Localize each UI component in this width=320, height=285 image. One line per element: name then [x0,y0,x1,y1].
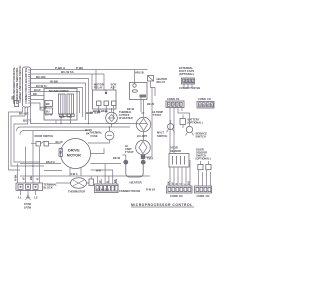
wire battery drop [182,115,184,129]
label W-BK mid [40,105,93,115]
svg-text:(OPTIONAL): (OPTIONAL) [179,72,194,76]
svg-text:W-BK: W-BK [40,105,47,109]
wire top bus P-BK [31,66,148,70]
transformer T1 [44,89,77,121]
label thermal cutoff [119,107,135,120]
svg-text:BR: BR [46,102,50,106]
svg-text:W HEATER: W HEATER [119,116,133,120]
svg-text:6 5 4 3 2 1: 6 5 4 3 2 1 [97,188,110,192]
svg-text:R: R [105,181,109,183]
svg-text:CONN. FE: CONN. FE [167,97,180,101]
svg-text:CONN. CO: CONN. CO [198,97,211,101]
svg-text:P-BK A: P-BK A [55,66,66,70]
svg-text:BK-W: BK-W [113,156,121,160]
svg-text:P-BK: P-BK [76,66,84,70]
title microprocessor control [131,203,194,207]
svg-text:W-R: W-R [96,169,101,173]
svg-text:TRANSFORMER: TRANSFORMER [49,89,69,93]
thermostat cycling [106,108,118,127]
svg-text:W: W [22,177,26,180]
fuse BR on board lead [11,96,19,107]
svg-text:BK: BK [113,179,117,183]
svg-text:BK-W: BK-W [127,107,135,111]
heater element coils [113,155,146,185]
fuse F1 [45,101,53,107]
wire stair y99 [31,99,44,101]
svg-text:R-W 5A: R-W 5A [146,188,155,192]
svg-text:R: R [36,178,40,180]
wire W-BK [31,79,86,120]
svg-text:CONNECTOR SB: CONNECTOR SB [179,86,200,90]
wire to transformer [31,84,83,117]
svg-text:DOOR SWITCH: DOOR SWITCH [35,134,54,138]
wire stair y91 [31,88,80,113]
wire optional to conn oc [199,170,211,186]
connector CO [197,97,214,108]
svg-text:SENSOR: SENSOR [170,149,181,153]
svg-text:1P3W: 1P3W [24,206,32,210]
label hi temp [90,111,101,115]
hi-limit thermostat A [136,113,151,140]
svg-text:BU: BU [46,109,50,113]
svg-text:W-BK: W-BK [85,128,92,132]
battery optional [180,118,203,125]
svg-text:R-W A: R-W A [70,172,78,176]
drive motor M1 [59,139,91,169]
label BK-W right [147,102,155,106]
svg-text:CONNECTOR DB: CONNECTOR DB [119,189,140,193]
connector DC [167,186,193,198]
svg-text:SWITCH: SWITCH [196,135,206,139]
svg-text:BK: BK [101,109,105,113]
svg-text:CONN. OC: CONN. OC [197,194,210,198]
heater relay K2 [148,76,168,88]
svg-text:T'STAT: T'STAT [153,113,162,117]
svg-text:Y: Y [183,183,187,185]
connector FE [166,97,184,108]
wire R-W motor bottom [20,169,150,177]
svg-text:DRIVE: DRIVE [68,149,80,153]
wire stair y103 [31,103,44,110]
svg-text:HEATER: HEATER [130,181,143,185]
svg-text:BU-BK: BU-BK [36,75,46,79]
wire strip pin stubs [98,164,118,185]
mult switch [157,120,175,138]
label HRLYB [135,71,144,75]
wire transformer secondary drops [56,114,74,124]
svg-text:L2: L2 [34,196,38,200]
optional switch contacts [198,161,211,170]
svg-text:BU-R: BU-R [34,88,41,92]
svg-text:THERMISTOR: THERMISTOR [68,190,85,194]
svg-text:BK-W: BK-W [147,102,155,106]
svg-text:BK: BK [86,132,90,136]
hi-limit thermostat B [125,140,150,155]
fuse F2 [45,108,53,114]
belt switch [89,176,94,186]
thermal fuse [88,127,114,143]
connector MB strip [95,184,141,193]
door sensor switch optional note [196,148,211,161]
wire bus mid3 [20,131,88,135]
svg-text:HI LIMIT: HI LIMIT [137,134,148,138]
control board vertical legend text [12,66,22,104]
wire left loop inner [14,107,40,162]
svg-text:ASY: ASY [111,85,117,89]
wire left loop outer [9,107,23,170]
svg-text:BR: BR [11,96,15,100]
external duct caps note [179,66,194,76]
wire BU-BK [31,75,89,124]
svg-text:BR: BR [33,92,37,96]
svg-text:BK: BK [167,181,171,185]
junction dots [32,112,144,167]
wire bus mid1 [31,104,148,124]
svg-text:MICROPROCESSOR CONTROL: MICROPROCESSOR CONTROL [131,203,193,207]
svg-text:BLOCK: BLOCK [44,186,53,190]
connector SB [179,78,200,90]
service switch [186,122,208,139]
wire motor relay feeds [104,70,144,114]
svg-text:L1: L1 [18,196,22,200]
svg-text:BU-W 5A: BU-W 5A [61,70,75,74]
svg-text:FUSE: FUSE [91,134,98,138]
label R-W 5A [146,188,155,192]
wire vertical feeders [76,70,96,91]
label hi-temp t'stat [153,110,164,117]
motor switch S2 [130,83,148,100]
svg-text:R: R [175,183,179,185]
motor relay K1 [93,83,117,110]
wire terminal feeders [14,131,40,183]
svg-text:BU-BK: BU-BK [19,112,29,116]
svg-text:1P4W: 1P4W [24,202,32,206]
wire BK-R to motor [20,160,121,171]
svg-text:CABINET AND DOOR SWITCH: CABINET AND DOOR SWITCH [18,66,22,103]
svg-text:(OPTIONAL): (OPTIONAL) [196,157,211,161]
svg-text:MOTOR: MOTOR [67,153,81,157]
wire stair y95 [31,92,44,96]
terminal leads L1 N L2 [18,191,38,210]
svg-text:BK-R A: BK-R A [46,160,55,164]
thermistor RT1 [56,178,89,194]
wire heater relay to FE [151,84,193,96]
wire BU-W 5A [31,70,104,90]
label between thermostats [137,134,148,138]
door switch S1 [31,134,63,146]
wire right mid trunk [145,88,152,158]
svg-text:W-BK: W-BK [50,79,59,83]
wire right trunk feeders [170,108,190,154]
svg-text:R-BK: R-BK [14,174,18,181]
wire relay pin drops [93,106,114,118]
door sensor [169,146,189,168]
svg-text:HRLYB: HRLYB [135,71,144,75]
svg-text:SWITCH: SWITCH [157,134,167,138]
heater terminal block [141,155,154,161]
wire motor drops [70,148,104,176]
svg-text:G: G [179,183,183,185]
svg-text:BU: BU [187,181,191,185]
svg-text:CONNECTOR P1 BOARD SIG: CONNECTOR P1 BOARD SIG [24,68,28,104]
svg-text:RELAY: RELAY [94,85,103,89]
label W-BK near motor top [85,128,92,136]
terminal block TB1 [16,183,57,191]
wire left loop mid [11,107,44,166]
svg-text:W-BK: W-BK [86,111,93,115]
svg-text:BK: BK [29,176,33,180]
wire sensor to conn dc [167,160,191,186]
svg-text:BU-W: BU-W [56,140,64,144]
svg-text:BU-W 51: BU-W 51 [36,84,47,88]
svg-text:RELAY: RELAY [157,80,166,84]
svg-text:T'STAT: T'STAT [125,150,134,154]
connector P1 board edge [23,67,31,107]
wire bus mid2 [17,127,131,131]
svg-text:CONN. DC: CONN. DC [170,194,183,198]
connector OC [195,186,212,198]
